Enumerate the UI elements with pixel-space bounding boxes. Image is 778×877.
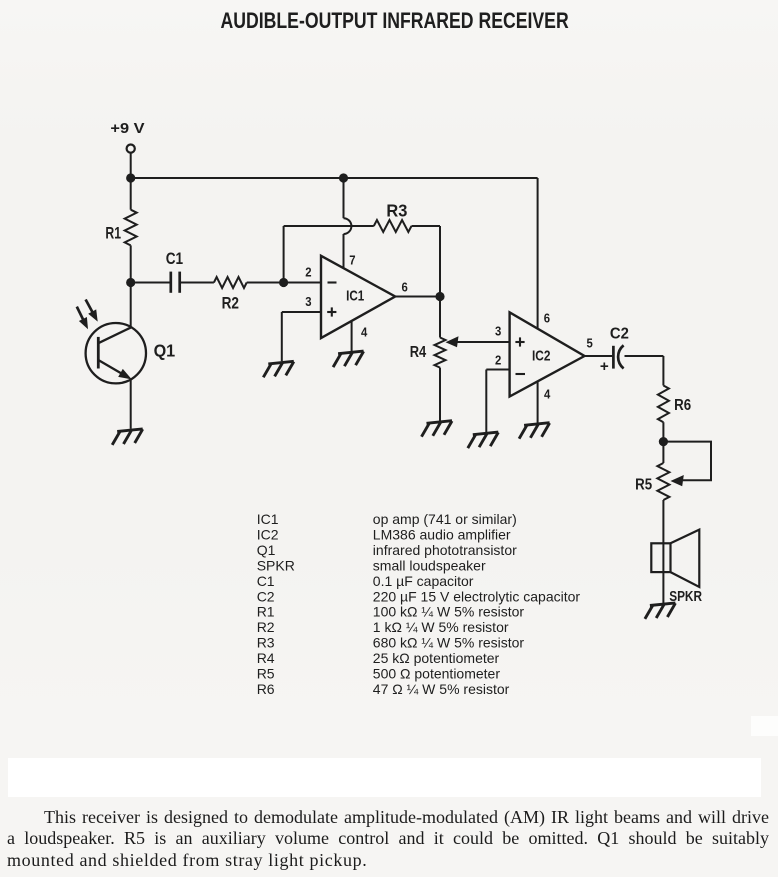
svg-text:47 Ω ¼ W 5% resistor: 47 Ω ¼ W 5% resistor <box>373 681 510 697</box>
svg-text:C2: C2 <box>257 588 275 604</box>
svg-text:+9 V: +9 V <box>110 120 145 137</box>
svg-text:small loudspeaker: small loudspeaker <box>373 557 486 573</box>
svg-text:R5: R5 <box>635 477 652 494</box>
svg-text:R6: R6 <box>674 397 691 414</box>
svg-text:R1: R1 <box>257 604 275 620</box>
svg-text:SPKR: SPKR <box>669 588 702 605</box>
svg-text:220 µF 15 V electrolytic capac: 220 µF 15 V electrolytic capacitor <box>373 588 581 604</box>
svg-text:2: 2 <box>495 353 501 368</box>
svg-text:3: 3 <box>305 294 311 309</box>
svg-text:op amp (741 or similar): op amp (741 or similar) <box>373 511 517 527</box>
svg-text:R2: R2 <box>222 294 239 313</box>
svg-text:C2: C2 <box>610 326 629 343</box>
svg-text:3: 3 <box>495 324 501 339</box>
svg-text:R2: R2 <box>257 619 275 635</box>
svg-text:IC1: IC1 <box>257 511 279 527</box>
svg-text:LM386 audio amplifier: LM386 audio amplifier <box>373 527 511 543</box>
svg-text:680 kΩ ¼ W 5% resistor: 680 kΩ ¼ W 5% resistor <box>373 635 525 651</box>
svg-text:infrared phototransistor: infrared phototransistor <box>373 542 517 558</box>
svg-text:0.1 µF capacitor: 0.1 µF capacitor <box>373 573 474 589</box>
svg-text:AUDIBLE-OUTPUT INFRARED RECEIV: AUDIBLE-OUTPUT INFRARED RECEIVER <box>221 8 569 33</box>
svg-text:IC2: IC2 <box>532 348 551 364</box>
svg-text:R3: R3 <box>257 635 275 651</box>
svg-text:2: 2 <box>305 264 311 279</box>
svg-text:4: 4 <box>544 387 551 402</box>
svg-text:C1: C1 <box>166 250 183 268</box>
svg-text:R4: R4 <box>257 650 275 666</box>
svg-text:R4: R4 <box>410 344 427 361</box>
svg-text:1 kΩ ¼ W 5% resistor: 1 kΩ ¼ W 5% resistor <box>373 619 509 635</box>
svg-text:Q1: Q1 <box>257 542 276 558</box>
svg-text:C1: C1 <box>257 573 275 589</box>
svg-text:SPKR: SPKR <box>257 557 295 573</box>
svg-text:100 kΩ ¼ W 5% resistor: 100 kΩ ¼ W 5% resistor <box>373 604 525 620</box>
svg-text:IC1: IC1 <box>346 289 364 305</box>
svg-text:R5: R5 <box>257 666 275 682</box>
svg-text:7: 7 <box>349 252 355 267</box>
svg-text:25 kΩ potentiometer: 25 kΩ potentiometer <box>373 650 500 666</box>
svg-text:R1: R1 <box>105 223 121 242</box>
svg-text:6: 6 <box>544 311 550 326</box>
svg-text:IC2: IC2 <box>257 527 279 543</box>
svg-text:6: 6 <box>402 279 408 294</box>
svg-text:R3: R3 <box>386 201 407 221</box>
svg-text:5: 5 <box>587 336 593 351</box>
svg-text:R6: R6 <box>257 681 275 697</box>
svg-text:500 Ω potentiometer: 500 Ω potentiometer <box>373 666 501 682</box>
svg-text:Q1: Q1 <box>154 341 176 361</box>
svg-text:4: 4 <box>361 324 368 339</box>
svg-text:+: + <box>600 358 609 375</box>
